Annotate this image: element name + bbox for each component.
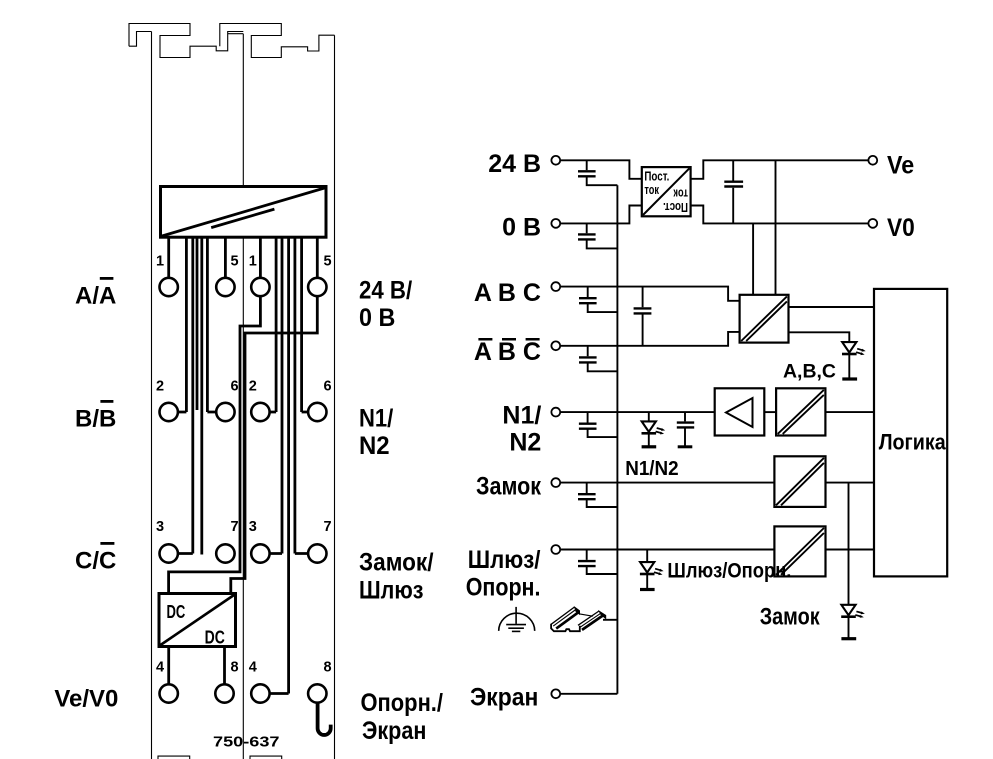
svg-text:6: 6: [324, 379, 332, 395]
contact circle 2L row2: [160, 403, 178, 421]
svg-text:2: 2: [156, 379, 164, 395]
terminal 0V: [551, 219, 560, 228]
DC box output pin left: [167, 647, 170, 685]
wire A'B'C' terminal to opto U2: [560, 332, 739, 346]
shield bus rail: [616, 185, 618, 694]
opto-isolator U2: [740, 295, 789, 343]
capacitor C8 on Zamok: [587, 483, 618, 507]
wire A from contact 3 to DC converter: [169, 296, 261, 593]
svg-text:Пост.: Пост.: [644, 169, 669, 183]
right bundle wire to contact 3 right: [270, 237, 282, 553]
terminal circles right schematic: [551, 156, 877, 698]
left bundle wire to contact 3: [178, 237, 193, 553]
svg-text:B/B: B/B: [75, 405, 116, 432]
right bundle wire to contact 6 right: [302, 237, 309, 412]
svg-text:Пост.: Пост.: [663, 200, 688, 214]
DC box diagonal: [161, 595, 235, 645]
terminal Shluz: [551, 545, 560, 554]
opto U2 output lower to LED1: [789, 332, 850, 342]
svg-text:ток: ток: [673, 187, 688, 201]
terminal V0: [868, 219, 877, 228]
left bundle wire to contact 6: [207, 237, 216, 412]
DCDC out lower to V0: [691, 206, 869, 224]
capacitor C9 on Shluz: [587, 550, 618, 575]
amplifier triangle: [726, 398, 753, 427]
wire stub to contact 5 right: [316, 237, 319, 278]
svg-text:Шлюз/Опорн.: Шлюз/Опорн.: [667, 560, 791, 583]
right bundle wire to contact 2 right: [270, 237, 277, 412]
svg-text:750-637: 750-637: [213, 735, 280, 751]
svg-text:1: 1: [249, 254, 257, 270]
terminal Zamok: [551, 478, 560, 487]
svg-text:24 В/: 24 В/: [359, 276, 412, 304]
left bundle wire short: [196, 237, 199, 410]
contact circle 7L row3: [216, 544, 234, 562]
svg-text:0 В: 0 В: [359, 304, 395, 332]
contact circle 1R row1: [251, 278, 269, 296]
module top latch profile left clip: [129, 32, 152, 47]
left bundle wire dead end: [200, 237, 203, 554]
right bundle wire to contact 4 right: [270, 237, 289, 693]
svg-text:N1/: N1/: [502, 401, 541, 429]
left labels: [54, 282, 118, 712]
module right edge: [334, 35, 336, 759]
svg-text:DC: DC: [205, 627, 225, 647]
contact circle 4R row4: [251, 684, 269, 702]
svg-text:N1/: N1/: [359, 404, 393, 432]
LED3 Shluz/Oporn: [640, 562, 664, 575]
wire 0V terminal to DCDC: [560, 206, 642, 224]
contact circle 3R row3: [251, 544, 269, 562]
svg-text:Логика: Логика: [879, 430, 947, 455]
shield hook on contact 8R: [318, 703, 331, 735]
opto U3 output to logic: [825, 411, 874, 413]
svg-text:24 В: 24 В: [488, 150, 541, 178]
left bundle wire to contact 2: [178, 237, 187, 412]
svg-text:6: 6: [231, 379, 239, 395]
svg-text:A B C: A B C: [474, 338, 541, 366]
isolator box U1: [161, 187, 327, 238]
svg-text:7: 7: [231, 519, 239, 535]
svg-text:Опорн./: Опорн./: [361, 689, 444, 717]
svg-text:8: 8: [324, 660, 332, 676]
module center divider upper: [242, 34, 244, 187]
pin numbers row1: [156, 254, 332, 676]
right labels of module: [359, 276, 443, 745]
terminal circles 4x4: [160, 278, 327, 703]
terminal N1/N2: [551, 408, 560, 417]
svg-text:Экран: Экран: [362, 717, 426, 745]
wire B from contact 5 to DC converter: [231, 296, 317, 593]
svg-text:N2: N2: [509, 429, 541, 457]
wire Zamok terminal to opto U4: [560, 482, 774, 484]
terminal Ekran: [551, 689, 560, 698]
module top latch profile center clip: [220, 24, 335, 58]
contact circle 4L row4: [160, 684, 178, 702]
capacitor C7 end tick: [678, 445, 693, 448]
svg-text:4: 4: [156, 660, 164, 676]
vertical V0 to opto U2 top: [752, 223, 754, 294]
svg-text:4: 4: [249, 660, 257, 676]
contact circle 3L row3: [160, 544, 178, 562]
terminal 24V: [551, 156, 560, 165]
wire stub to contact 5 left: [224, 237, 227, 278]
opto U4 output to logic: [826, 482, 875, 484]
svg-text:V0: V0: [887, 214, 915, 242]
svg-text:N1/N2: N1/N2: [625, 458, 679, 480]
svg-text:8: 8: [231, 660, 239, 676]
contact circle 5R row1: [308, 278, 326, 296]
capacitor C2 on 0V: [587, 223, 618, 248]
bottom clip rect left: [158, 756, 190, 759]
isolator diagonal: [162, 188, 325, 236]
opto U5 output to logic: [826, 549, 875, 551]
capacitor C_Ve stub: [732, 160, 734, 223]
svg-text:0 В: 0 В: [502, 214, 541, 242]
opto-isolator U5: [774, 526, 825, 576]
svg-text:Опорн.: Опорн.: [466, 574, 541, 602]
svg-text:N2: N2: [359, 432, 390, 460]
bottom clip rect right: [250, 756, 282, 759]
amplifier box U6: [715, 388, 765, 435]
terminal A'B'C': [551, 341, 560, 350]
svg-text:Ve: Ve: [887, 151, 914, 179]
svg-text:ток: ток: [644, 183, 659, 197]
svg-text:Замок: Замок: [476, 473, 541, 501]
DCDC out upper to Ve: [691, 160, 869, 179]
capacitor C4 between ABC lines: [642, 287, 644, 346]
svg-text:Замок/: Замок/: [359, 548, 434, 576]
svg-text:2: 2: [249, 379, 257, 395]
wire Ekran terminal to bus: [560, 693, 617, 695]
capacitor C_Ve plates: [724, 182, 743, 187]
overbars on A'B'C' label: [478, 338, 539, 341]
capacitor C5 on A'B'C': [588, 346, 618, 372]
svg-text:Шлюз: Шлюз: [359, 577, 424, 605]
junction to LED4 Zamok: [848, 483, 850, 605]
isolator inner parallel line: [211, 209, 274, 228]
logic box: [874, 289, 947, 577]
wire ABC terminal to opto U2: [560, 287, 739, 301]
svg-text:A/A: A/A: [75, 282, 116, 309]
LED2 stub and tick: [648, 412, 650, 447]
svg-text:A B C: A B C: [474, 279, 541, 307]
DCDC diagonal: [643, 168, 689, 215]
terminal stubs row 1: [169, 237, 318, 693]
LED3 stub and tick: [646, 550, 648, 590]
contact circle 6R row2: [308, 403, 326, 421]
opto U2 output upper to logic: [789, 306, 875, 308]
capacitor C7 beside LED2: [684, 412, 686, 447]
svg-text:3: 3: [249, 519, 257, 535]
svg-text:7: 7: [324, 519, 332, 535]
contact circle 5L row1: [216, 278, 234, 296]
svg-text:DC: DC: [167, 602, 186, 622]
LED2 N1/N2: [642, 421, 666, 434]
svg-text:Ve/V0: Ve/V0: [54, 685, 118, 712]
DC box output pin right: [223, 647, 226, 685]
module left edge: [151, 32, 153, 759]
opto-isolator U4: [774, 456, 825, 507]
capacitor C3 on ABC: [588, 287, 618, 313]
overbar C: [100, 542, 114, 545]
terminal ABC: [551, 282, 560, 291]
overbar B: [100, 400, 113, 403]
svg-text:5: 5: [324, 254, 332, 270]
svg-text:C/C: C/C: [75, 547, 116, 574]
wire 24V terminal to DCDC: [560, 160, 642, 179]
contact circle 7R row3: [308, 544, 326, 562]
contact circle 8L row4: [215, 684, 233, 702]
LED1 stub and tick: [848, 354, 850, 379]
wire N1 terminal to amplifier: [559, 411, 714, 413]
DC/DC converter box: [159, 594, 236, 647]
module center divider lower: [242, 237, 244, 759]
wire stub to contact 1 right: [259, 237, 262, 278]
DIN rail symbol: [551, 607, 606, 631]
contact circle 1L row1: [160, 278, 178, 296]
terminal Ve: [868, 156, 877, 165]
wire stub to contact 1 left: [167, 237, 170, 278]
functional earth symbol: [499, 607, 535, 632]
svg-text:A,B,C: A,B,C: [783, 361, 836, 383]
wire Shluz terminal to opto U5: [560, 549, 774, 551]
opto-isolator U3: [776, 388, 825, 435]
DCDC converter box (Post. tok): [642, 167, 691, 216]
overbar A: [100, 277, 114, 280]
capacitor C6 on N1: [588, 412, 618, 437]
terminal labels right schematic: [466, 150, 542, 712]
LED4 Zamok: [841, 605, 865, 618]
contact circle 8R row4: [308, 684, 326, 702]
svg-text:Шлюз/: Шлюз/: [468, 546, 541, 574]
LED1 A,B,C: [842, 342, 866, 355]
right bundle wire to contact 7 right: [295, 237, 308, 553]
svg-text:Экран: Экран: [470, 683, 538, 711]
svg-text:5: 5: [231, 254, 239, 270]
svg-text:1: 1: [156, 254, 164, 270]
svg-text:Замок: Замок: [760, 604, 821, 631]
LED4 stub and tick: [848, 617, 850, 639]
svg-text:3: 3: [156, 519, 164, 535]
vertical Ve to opto U2 top: [775, 160, 777, 294]
amplifier to opto U3: [764, 411, 776, 413]
capacitor C1 on 24V: [587, 160, 618, 185]
DIN rail wire to bus: [603, 619, 617, 621]
contact circle 2R row2: [251, 403, 269, 421]
contact circle 6L row2: [216, 403, 234, 421]
